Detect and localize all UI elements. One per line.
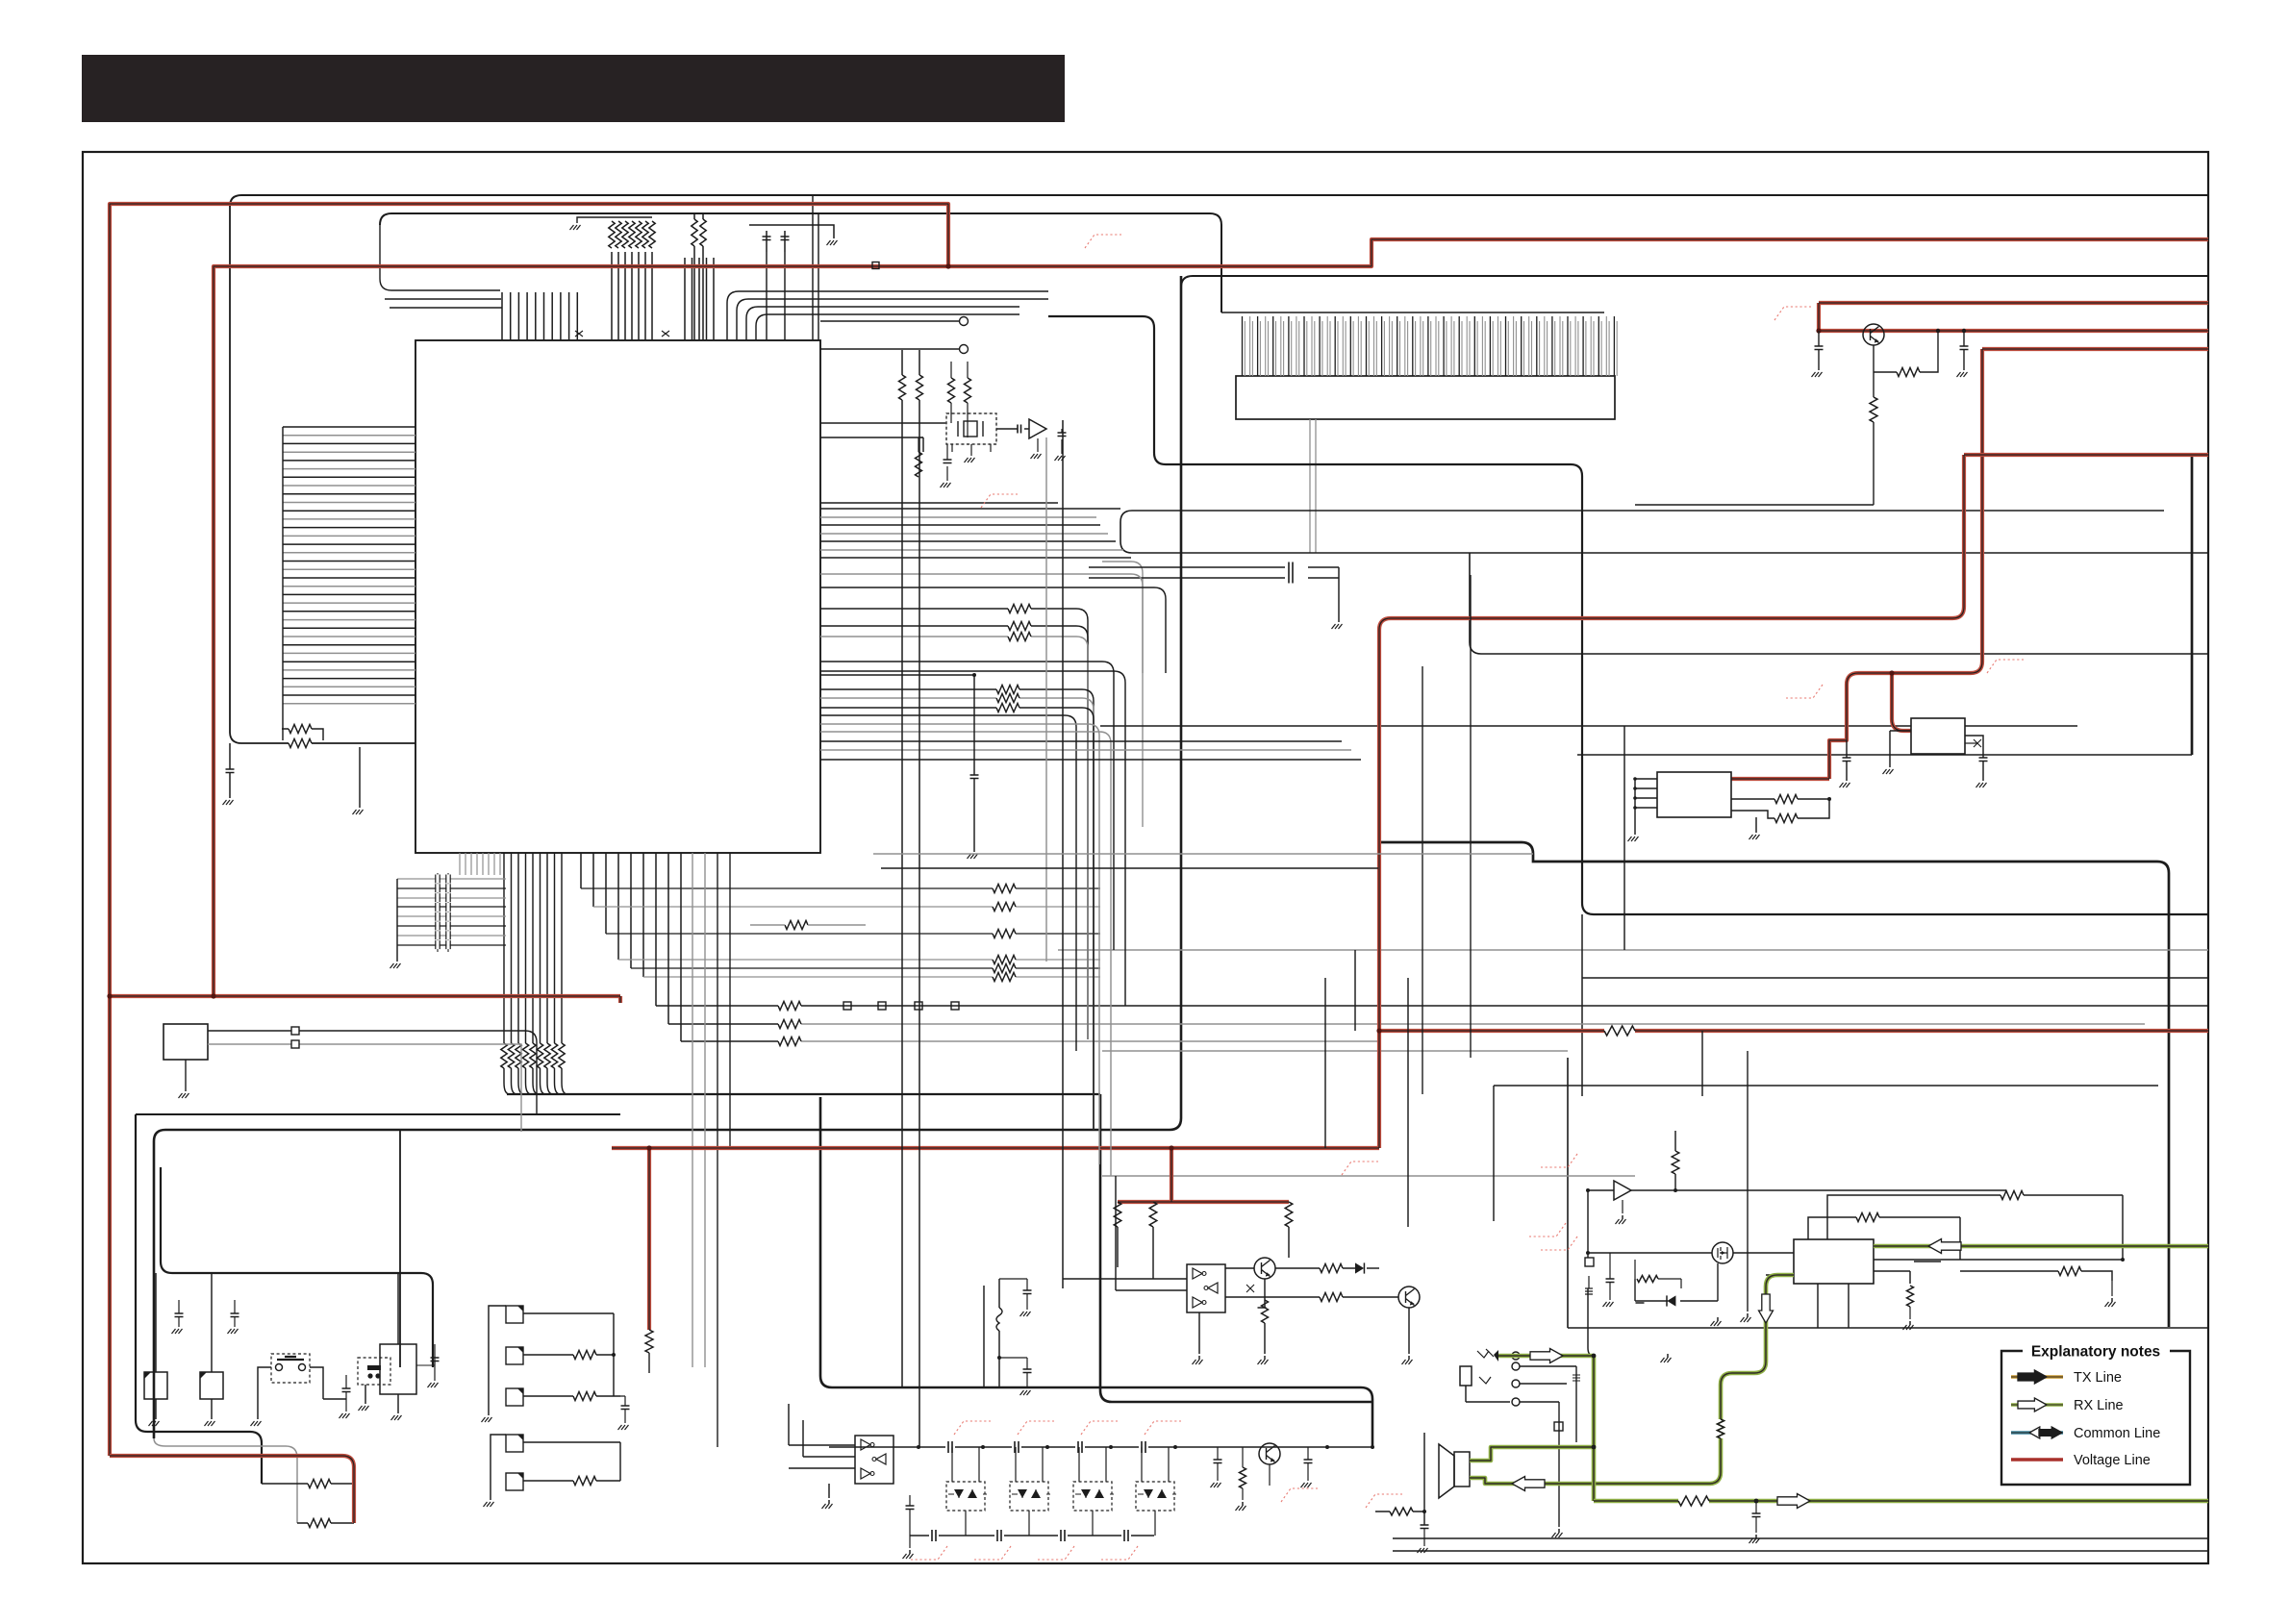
vertical x=1651 bbox=[1587, 1190, 1589, 1266]
svg-text:Explanatory notes: Explanatory notes bbox=[2031, 1344, 2160, 1361]
resistor to red x=368 lower bbox=[308, 1519, 331, 1528]
voltage line main left loop bbox=[110, 204, 948, 1456]
long verticals from IC bottom bbox=[717, 853, 730, 1447]
vertical x=1689 bbox=[1623, 726, 1625, 950]
net flag 4 bbox=[1786, 685, 1823, 698]
wire pin corner y=771 bbox=[820, 740, 1342, 742]
net flag capb 1 bbox=[911, 1546, 947, 1560]
wire pin y=611 corner bbox=[820, 587, 1166, 673]
net flag 7 bbox=[1541, 1154, 1577, 1167]
resistor comb network top bbox=[609, 221, 615, 248]
junction dots on cap line bbox=[917, 1445, 920, 1449]
grey companions y=888 y=903 bbox=[873, 853, 1533, 855]
resistor pair on top wires bbox=[688, 219, 711, 246]
connector top collect wire bbox=[1221, 312, 1604, 313]
net flag speaker bbox=[1366, 1494, 1402, 1508]
series caps on line bbox=[945, 1439, 955, 1455]
resistor on x=938 bbox=[895, 375, 909, 400]
wire pin y=580 bbox=[820, 557, 1131, 559]
wires from small box bbox=[208, 1031, 537, 1114]
speaker SP1 bbox=[1439, 1444, 1454, 1498]
tick mark bundle A bbox=[575, 331, 583, 337]
wire y=1049 with pads bbox=[801, 1005, 2208, 1007]
audio amp IC U6 bbox=[1794, 1239, 1874, 1284]
component box B2 bbox=[200, 1372, 223, 1399]
Q1 collector resistor bbox=[1873, 372, 1875, 397]
diode pair D5 bbox=[1136, 1482, 1174, 1511]
wire pin y=546 bbox=[820, 524, 1100, 526]
connector downstream wires bbox=[1310, 419, 1316, 553]
net flag 5 bbox=[1987, 660, 2024, 673]
voltage line right loop bbox=[1731, 349, 2208, 779]
thick bus from IC bottom y=1138 bbox=[507, 1093, 1100, 1095]
legend voltage line bbox=[2011, 1458, 2063, 1462]
cap x=650 bbox=[620, 1396, 625, 1406]
resistor y=1083 bbox=[778, 1037, 801, 1046]
wire y=680 to border bbox=[1470, 553, 2208, 654]
thick bus y=1159 bbox=[136, 1113, 620, 1115]
capacitor under left rail bbox=[229, 743, 231, 769]
connector CN1 body bbox=[1236, 376, 1615, 419]
U5 inputs bbox=[789, 1404, 855, 1468]
rx tick at jack bbox=[1494, 1350, 1498, 1362]
S1 wires bbox=[289, 1273, 291, 1354]
svg-text:TX Line: TX Line bbox=[2074, 1370, 2122, 1386]
resistor pair left rail bbox=[289, 739, 312, 748]
rx arrow jack bbox=[1530, 1349, 1563, 1363]
osc amp cap bbox=[1054, 423, 1062, 435]
S1 pull cap bbox=[345, 1375, 347, 1388]
vertical x=1553 bbox=[1493, 1086, 1495, 1221]
dashed flag mosfet bbox=[1541, 1237, 1577, 1250]
voltage line bottom tail bbox=[110, 1456, 354, 1523]
tick mark bundle B bbox=[662, 331, 669, 337]
inverter IC U5 bbox=[855, 1436, 893, 1484]
caps pair lines under connector bbox=[1089, 567, 1339, 622]
main series cap line bbox=[829, 1446, 1372, 1448]
U2 ground left bbox=[1628, 837, 1639, 841]
vertical x=1409 bbox=[1354, 950, 1356, 1031]
net flag 2 bbox=[1774, 307, 1811, 320]
U3 cap right bbox=[1965, 736, 1983, 758]
resistor hang x=1199 bbox=[1149, 1202, 1157, 1227]
square pad left bbox=[1585, 1258, 1594, 1266]
wire pin y=726 resistor b bbox=[820, 698, 1094, 1130]
regulator box U3 bbox=[1911, 718, 1965, 754]
U3 ground left bbox=[1890, 731, 1911, 767]
resistor left cluster bbox=[1635, 1278, 1678, 1280]
wire pin corner y=688 bbox=[820, 662, 1114, 950]
wire pin y=529 bbox=[820, 508, 1120, 510]
legend rx line bbox=[2011, 1403, 2063, 1406]
thick route via x=1200 bbox=[1048, 316, 2208, 914]
B1 cap bbox=[178, 1288, 180, 1327]
wire pin corner y=790 bbox=[820, 759, 1361, 761]
rx left arrow speaker bbox=[1512, 1477, 1545, 1491]
pad squares on y=1046 bbox=[843, 1002, 851, 1010]
cap x=1674 bbox=[1609, 1253, 1611, 1279]
wire pin y=662 resistor bbox=[820, 637, 1088, 1039]
wire curls into IC top-left bbox=[380, 225, 502, 308]
resistor bottom left of jack bbox=[1390, 1508, 1413, 1515]
thick bus y=1324 bbox=[161, 1167, 433, 1367]
net flag 8 bbox=[1529, 1223, 1566, 1237]
vertical wires center bbox=[1422, 666, 1423, 1094]
wire y=1017 bbox=[1582, 977, 2208, 979]
vertical x=1464 bbox=[1407, 978, 1409, 1227]
Q1 capacitor left bbox=[1818, 331, 1820, 346]
component box small bbox=[164, 1024, 208, 1060]
rx to speaker top bbox=[1470, 1447, 1594, 1461]
junction dots Q1 bbox=[1962, 329, 1966, 333]
net flag cap 3 bbox=[1081, 1421, 1118, 1435]
wire run y=1007 bbox=[631, 967, 1100, 969]
Q2 emitter bbox=[1264, 1279, 1266, 1308]
wire pin y=651 resistor bbox=[820, 626, 1088, 1039]
wire run y=924 bbox=[581, 887, 1100, 889]
wire y=1381 to border bbox=[1568, 1058, 2208, 1328]
Q3 wiring bbox=[1225, 1296, 1398, 1298]
U6 ground resistor bbox=[1907, 1286, 1914, 1307]
jack contacts bbox=[1512, 1352, 1520, 1360]
U6 bottom pins bbox=[1766, 1260, 2124, 1284]
diode pair D3 bbox=[1010, 1482, 1048, 1511]
jack hook contacts bbox=[1477, 1351, 1491, 1384]
wire pin y=563 bbox=[820, 540, 1116, 542]
Q2 wiring bbox=[1225, 1267, 1355, 1269]
feedback resistor upper bbox=[1880, 1144, 2060, 1190]
IC top pin bundle A bbox=[502, 292, 577, 340]
headphone jack J1 bbox=[1460, 1366, 1472, 1386]
cap ground right bbox=[2111, 1281, 2113, 1296]
resistor in voltage line bbox=[1604, 1026, 1635, 1036]
vertical x=1088 bbox=[1045, 437, 1047, 962]
voltage line y=1036 bbox=[110, 996, 620, 1003]
net flag cap 4 bbox=[1145, 1421, 1181, 1435]
wire pin corner y=761 bbox=[820, 732, 1111, 1176]
pad square 1 bbox=[291, 1027, 299, 1035]
wire run y=943 bbox=[593, 906, 1100, 908]
more staircase to lower rows bbox=[656, 853, 681, 1041]
long verticals x=938 x=956 bbox=[902, 350, 919, 1447]
wires IC right to oscillator bbox=[820, 423, 946, 437]
diode pair D4 bbox=[1073, 1482, 1112, 1511]
voltage line top right branch bbox=[1819, 303, 2208, 331]
thick rail x=141 bottom left bbox=[136, 1114, 262, 1484]
coil cluster bbox=[983, 1286, 985, 1387]
wire U-turn y=531-575 bbox=[1120, 511, 2208, 553]
component box B3 bbox=[380, 1344, 416, 1394]
U3 x-pin bbox=[1965, 742, 1977, 744]
connector pin comb bbox=[1243, 316, 1615, 376]
capacitor right of Q1 bbox=[1963, 331, 1965, 346]
thick bus y=876-896 bbox=[1378, 842, 2169, 1327]
B3 dashed switch bbox=[358, 1358, 390, 1385]
grounds row audio bbox=[1667, 1354, 1669, 1358]
microcontroller IC U1 bbox=[415, 340, 820, 853]
bottom line caps bbox=[929, 1528, 939, 1543]
IC top pin bundle C bbox=[685, 258, 714, 340]
rx resistor bottom bbox=[1678, 1496, 1709, 1506]
cap col 1 bbox=[178, 1300, 180, 1313]
test point circles bbox=[960, 317, 969, 326]
net flag 3 bbox=[981, 494, 1018, 508]
wire pin corner y=780 bbox=[820, 749, 1351, 751]
wire run y=998 bbox=[618, 959, 1100, 961]
upper feedback resistor bbox=[1827, 1195, 2123, 1260]
wire run y=971 bbox=[606, 933, 1100, 935]
resistor comb below IC bbox=[503, 853, 505, 1043]
wire y=1238 cluster bbox=[1673, 1189, 1794, 1191]
capacitor bank wires left bbox=[397, 878, 506, 880]
IC bottom staircase wires bbox=[581, 853, 643, 977]
diode pair D2 bbox=[946, 1482, 985, 1511]
wire grey y=988 bbox=[1058, 949, 2208, 951]
voltage line big loop bbox=[612, 455, 2208, 1148]
inverter IC U4 bbox=[1187, 1264, 1225, 1312]
wire pin corner y=698 bbox=[820, 671, 1125, 1006]
title bar bbox=[82, 55, 1065, 122]
MOSFET Q5 bbox=[1712, 1242, 1733, 1263]
B1 wires bbox=[155, 1273, 157, 1419]
jack wires bbox=[1520, 1366, 1576, 1402]
thick bus x=1144 down bbox=[1100, 1094, 1372, 1402]
svg-text:Voltage Line: Voltage Line bbox=[2074, 1453, 2151, 1468]
rx line into amp bbox=[1874, 1244, 2208, 1249]
U2 ground right bbox=[1755, 817, 1757, 833]
switch squares pair lower bbox=[506, 1435, 523, 1452]
ground under rail x=374 bbox=[359, 747, 361, 808]
vertical pair x=845 bbox=[813, 194, 818, 340]
capacitor pair top bbox=[749, 225, 834, 252]
cap col 2 bbox=[234, 1300, 236, 1313]
wire pin y=538 bbox=[820, 516, 1096, 518]
pad square jack bbox=[1554, 1422, 1563, 1431]
Q4 network bbox=[1217, 1447, 1219, 1460]
wire y=1093 grey bbox=[1102, 1050, 1568, 1052]
svg-text:RX Line: RX Line bbox=[2074, 1398, 2124, 1413]
IC top pin bundle B bbox=[612, 252, 652, 340]
wire y=287 to border bbox=[1181, 276, 2208, 287]
B3 wires bbox=[365, 1273, 398, 1413]
switch squares column bbox=[506, 1306, 523, 1323]
U2 output resistors bbox=[1731, 799, 1829, 818]
ground under x=1920 bbox=[1846, 740, 1848, 767]
crystal X1 dashed box bbox=[946, 413, 996, 444]
MOSFET wiring bbox=[1588, 1252, 1794, 1254]
vertical x=1652 bbox=[1581, 914, 1583, 1096]
legend common line bbox=[2011, 1431, 2063, 1434]
wire pin y=555 bbox=[820, 533, 1108, 535]
resonator cluster 2 bbox=[922, 437, 924, 452]
voltage sub bus y=1250 bbox=[1118, 1148, 1289, 1202]
wire pin y=597 corner bbox=[820, 574, 1143, 673]
wire run y=1016 bbox=[643, 976, 1100, 978]
bottom cap line bbox=[910, 1535, 1154, 1537]
B3 cap right bbox=[434, 1344, 436, 1358]
voltage line y=1072 to border bbox=[1379, 1029, 2208, 1033]
vertical x=1378 bbox=[1324, 978, 1326, 1148]
pad square 2 bbox=[291, 1040, 299, 1048]
wire pin y=736 resistor b bbox=[820, 708, 1094, 1130]
rx arrow into amp bbox=[1928, 1239, 1961, 1254]
U4 input wires bbox=[1063, 1176, 1187, 1290]
zz cap jack bbox=[1573, 1375, 1580, 1381]
junction dots red bbox=[107, 993, 112, 998]
net flag cap 2 bbox=[1018, 1421, 1054, 1435]
wire pin corner y=744 bbox=[820, 715, 1076, 1051]
transistor Q2 bbox=[1254, 1258, 1275, 1279]
B2 wires bbox=[211, 1273, 213, 1419]
osc amp A1 bbox=[996, 428, 1018, 430]
osc amp ground bbox=[1037, 438, 1039, 452]
svg-text:Common Line: Common Line bbox=[2074, 1426, 2160, 1441]
IC left pin bus wires bbox=[283, 427, 415, 695]
resistor single y=962 bbox=[785, 921, 808, 930]
legend tx line bbox=[2011, 1375, 2063, 1378]
resistor y=1065 bbox=[778, 1020, 801, 1029]
cap cluster bl bbox=[1616, 1259, 1635, 1261]
thick vertical right border x=2279 bbox=[2191, 455, 2194, 755]
voltage line top bus bbox=[214, 239, 2208, 996]
wire y=1129 bbox=[1494, 1085, 2158, 1087]
rx bottom cap bbox=[1754, 1499, 1759, 1504]
wire bus left rail x=239 bbox=[230, 207, 415, 743]
net flag 6 bbox=[1342, 1162, 1378, 1175]
vertical x=1433 top bbox=[1378, 618, 1380, 842]
IC top curls heading right bbox=[727, 291, 1048, 340]
grey verticals to button cluster bbox=[692, 853, 705, 1367]
net flag 1 bbox=[1085, 235, 1121, 248]
resistor hang x=1340 bbox=[1285, 1202, 1293, 1227]
wire stub y=785 bbox=[1577, 754, 2192, 756]
pad square on voltage line bbox=[872, 262, 879, 269]
speaker terminals green bbox=[1470, 1461, 1485, 1478]
wire pin y=523 bbox=[820, 502, 1058, 504]
resistor to red x=368 upper bbox=[308, 1480, 331, 1488]
crystal ground bbox=[970, 444, 972, 456]
push button S1 dashed bbox=[271, 1354, 310, 1383]
net flag capb 4 bbox=[1101, 1546, 1138, 1560]
op-amp A2 bbox=[1614, 1181, 1631, 1200]
net flag capb 3 bbox=[1038, 1546, 1074, 1560]
capacitor bank ground bbox=[396, 879, 398, 962]
cap x=1786 gnd bbox=[1717, 1301, 1719, 1312]
wire bus top y=222 bbox=[380, 213, 1221, 312]
transistor Q1 top right bbox=[1863, 324, 1884, 345]
wires to red rail from IC top bbox=[694, 213, 703, 340]
capacitor bank columns bbox=[437, 873, 439, 952]
rx down arrow bbox=[1759, 1294, 1774, 1323]
transistor Q3 bbox=[1398, 1287, 1420, 1308]
thick vertical bus x=1228 bbox=[154, 276, 1181, 1438]
voltage branch into regulator bbox=[1892, 673, 1911, 731]
U2 input pins bbox=[1635, 779, 1657, 835]
rx resistor inline bbox=[1718, 1419, 1724, 1438]
small box ground bbox=[185, 1060, 187, 1091]
transistor Q4 bbox=[1259, 1443, 1280, 1464]
left bundle collector rail bbox=[282, 427, 284, 740]
component box B1 bbox=[144, 1372, 167, 1399]
U4 ground bbox=[1198, 1312, 1200, 1354]
grey rail to resistor bbox=[154, 1438, 297, 1523]
cap under voltage jog bbox=[1829, 739, 1846, 741]
bottom right wires bbox=[1393, 1538, 2208, 1551]
vertical x=1105 bbox=[1062, 420, 1064, 1288]
wire y=1223 grey bbox=[1102, 1175, 1635, 1177]
Q1 emitter network bbox=[1874, 331, 1938, 372]
diode D5 bbox=[1635, 1293, 1656, 1295]
voltage vertical x=675 bbox=[647, 1148, 651, 1330]
green junction dots bbox=[1592, 1354, 1597, 1359]
resistor under voltage x=675 bbox=[645, 1330, 653, 1353]
net flag cap 1 bbox=[954, 1421, 991, 1435]
wire pin y=633 resistor bbox=[820, 609, 1088, 1039]
resistor right of U6 bbox=[2008, 1271, 2112, 1284]
wire pin y=717 resistor b bbox=[820, 689, 1094, 1130]
collector x=638 bbox=[613, 1313, 615, 1396]
U6 top feedback bbox=[1808, 1217, 1960, 1260]
bottom line left cap to ground bbox=[909, 1510, 911, 1536]
crystal side caps bbox=[951, 444, 953, 452]
thick bus x=853 down bbox=[820, 1097, 1372, 1446]
IC box U2 bbox=[1657, 772, 1731, 817]
wire grey y=1065 bbox=[801, 1023, 2145, 1025]
diode D1 bbox=[1355, 1262, 1364, 1273]
legend box bbox=[2001, 1351, 2190, 1485]
rx jack line bbox=[1498, 1354, 1594, 1359]
ground x=1817 bbox=[1747, 1313, 1749, 1317]
resistor above opamp bbox=[1672, 1151, 1679, 1174]
wire grey y=1083 bbox=[801, 1040, 1379, 1042]
rx vertical bus bbox=[1592, 1356, 1597, 1501]
zz cap symbol bbox=[1588, 1276, 1590, 1288]
crystal element bbox=[964, 421, 977, 437]
rx line amp to speaker bbox=[1721, 1275, 1794, 1419]
resistor on x=956 bbox=[913, 375, 926, 400]
x mark U4 bbox=[1246, 1285, 1254, 1292]
rx bottom line to border bbox=[1594, 1499, 2208, 1504]
wire bus top y=203 bbox=[230, 195, 2208, 207]
vertical with cap x=1013 bbox=[820, 675, 974, 775]
wire pin y=572 bbox=[820, 549, 1123, 551]
wire grey y=575 left part bbox=[1102, 562, 1143, 827]
resistor feeding y=1046 bbox=[778, 1002, 801, 1011]
resistor hang x=1162 bbox=[1114, 1202, 1121, 1227]
U5 ground bbox=[828, 1484, 830, 1498]
vertical x=416 to buttons bbox=[399, 1130, 401, 1367]
rx bottom arrow bbox=[1777, 1494, 1810, 1509]
wire pin corner y=753 bbox=[820, 724, 1099, 1164]
resistor pair verticals right of IC bbox=[948, 378, 955, 403]
net flag capb 2 bbox=[974, 1546, 1011, 1560]
vertical bundle from cap bank to IC bbox=[460, 853, 500, 875]
wire y=755 bbox=[1100, 725, 2077, 727]
